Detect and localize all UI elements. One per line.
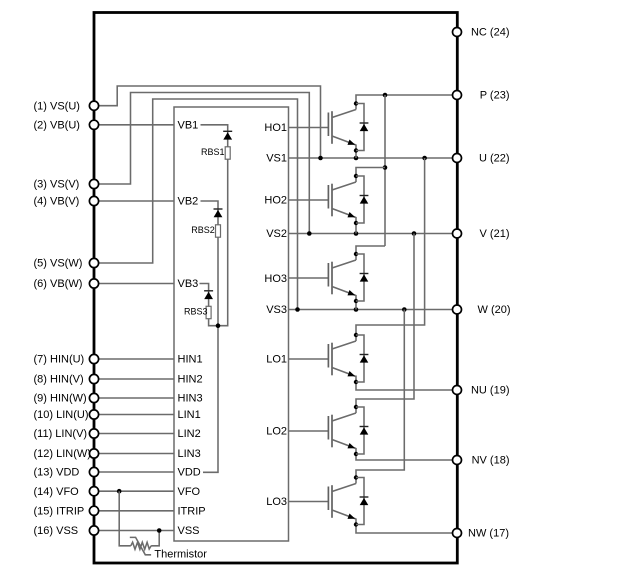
wire VB1 to bootstrap diode DBS1 [201, 125, 228, 147]
wire NV line [356, 448, 457, 460]
wire pin6 VB(W) to IC VB3 [94, 283, 174, 285]
wire pin11 LIN(V) to IC LIN2 [94, 433, 174, 435]
svg-text:VB2: VB2 [178, 196, 199, 208]
wire thermistor to VSS tap [151, 531, 159, 546]
wire Q2 collector stub [356, 168, 385, 183]
pin 12 terminal [89, 449, 98, 458]
wire P rail [356, 95, 457, 110]
wire pin9 HIN(W) to IC HIN3 [94, 397, 174, 399]
wire pin8 HIN(V) to IC HIN2 [94, 378, 174, 380]
junction low-side W feed on VS3 [402, 307, 407, 312]
wire pin14 VFO to IC VFO [94, 490, 174, 492]
IGBT Q2 (V-phase high side) [289, 174, 359, 225]
svg-text:LIN1: LIN1 [178, 409, 201, 421]
wire pin7 HIN(U) to IC HIN1 [94, 358, 174, 360]
pin 1 terminal [89, 101, 98, 110]
svg-text:VDD: VDD [178, 467, 201, 479]
wire VB3 to bootstrap diode DBS3 [200, 284, 209, 307]
pin 10 terminal [89, 410, 98, 419]
svg-text:(5) VS(W): (5) VS(W) [34, 258, 83, 270]
svg-text:(2) VB(U): (2) VB(U) [34, 120, 80, 132]
wire Q2 emitter to VS2 [355, 217, 357, 234]
wire pin10 LIN(U) to IC LIN1 [94, 414, 174, 416]
svg-text:(14) VFO: (14) VFO [34, 486, 80, 498]
svg-text:(7) HIN(U): (7) HIN(U) [34, 354, 85, 366]
svg-text:RBS3: RBS3 [184, 307, 208, 317]
wire pin1 VS(U) to VS1 node [94, 86, 321, 158]
IGBT Q1 (U-phase high side) [289, 101, 359, 152]
wire pin16 VSS to IC VSS [94, 530, 174, 532]
wire pin5 VS(W) to VS3 node [94, 99, 298, 310]
svg-text:LO1: LO1 [266, 354, 287, 366]
pin 17 terminal NW [453, 529, 462, 538]
package outline (module boundary) [94, 13, 457, 564]
wire pin15 ITRIP to IC ITRIP [94, 510, 174, 512]
svg-text:(12) LIN(W): (12) LIN(W) [34, 448, 91, 460]
svg-text:HIN3: HIN3 [178, 393, 203, 405]
wire pin2 VB(U) to IC VB1 [94, 124, 174, 126]
svg-text:HO3: HO3 [264, 273, 287, 285]
svg-text:VSS: VSS [178, 525, 200, 537]
svg-text:NC (24): NC (24) [471, 27, 510, 39]
junction Q2 emitter on VS2 [354, 231, 359, 236]
wire Q1 emitter to VS1 [355, 145, 357, 159]
wire Q5 collector stub up to VS2 [356, 234, 414, 414]
svg-text:(9) HIN(W): (9) HIN(W) [34, 393, 87, 405]
wire VS2 line [289, 233, 458, 235]
svg-text:W (20): W (20) [478, 304, 511, 316]
svg-text:LO3: LO3 [266, 496, 287, 508]
IGBT Q3 (W-phase high side) [289, 252, 359, 303]
junction VSS tap [157, 528, 162, 533]
svg-text:(16) VSS: (16) VSS [34, 525, 79, 537]
freewheel diode D2 [356, 176, 368, 223]
junction VS(W) on VS3 [295, 307, 300, 312]
pin 7 terminal [89, 354, 98, 363]
junction low-side V feed on VS2 [412, 231, 417, 236]
junction Q3 emitter on VS3 [354, 307, 359, 312]
wire pin3 VS(V) to VS2 node [94, 93, 309, 234]
wire RBS3 down to bootstrap junction [209, 319, 218, 326]
svg-text:Thermistor: Thermistor [154, 549, 207, 561]
pin 9 terminal [89, 393, 98, 402]
pin 13 terminal [89, 467, 98, 476]
svg-text:U (22): U (22) [479, 153, 510, 165]
svg-text:NV (18): NV (18) [472, 455, 510, 467]
thermistor RT1 zigzag [131, 542, 151, 549]
wire pin4 VB(V) to IC VB2 [94, 200, 174, 202]
svg-text:HO1: HO1 [264, 122, 287, 134]
resistor RBS2 [216, 225, 221, 237]
svg-text:VB1: VB1 [178, 120, 199, 132]
svg-text:(3) VS(V): (3) VS(V) [34, 179, 80, 191]
resistor RBS1 [225, 147, 230, 159]
svg-text:VB3: VB3 [178, 278, 199, 290]
bootstrap diode DBS2 [214, 209, 223, 217]
svg-text:(1) VS(U): (1) VS(U) [34, 100, 80, 112]
pin 4 terminal [89, 196, 98, 205]
wire Q6 collector stub up to VS3 [356, 310, 404, 484]
svg-text:HO2: HO2 [264, 195, 287, 207]
pin 21 terminal V [453, 229, 462, 238]
pin 19 terminal NU [453, 386, 462, 395]
wire P feed down to Q2 and Q3 collectors [384, 95, 386, 246]
junction low-side U feed on VS1 [422, 156, 427, 161]
IGBT Q6 (W-phase low side) [289, 475, 359, 526]
junction P rail feed [383, 93, 388, 98]
pin 22 terminal U [453, 154, 462, 163]
svg-text:(8) HIN(V): (8) HIN(V) [34, 374, 84, 386]
wire Q3 collector stub [356, 246, 385, 260]
wire VS3 line [289, 309, 458, 311]
bootstrap diode DBS3 [204, 291, 213, 299]
bootstrap diode DBS1 [223, 131, 232, 139]
svg-text:LIN3: LIN3 [178, 448, 201, 460]
freewheel diode D3 [356, 254, 368, 301]
pin 5 terminal [89, 258, 98, 267]
wire VS1 line [289, 157, 458, 159]
wire Q4 collector stub up to VS1 [356, 158, 425, 341]
svg-text:(6) VB(W): (6) VB(W) [34, 278, 83, 290]
svg-text:V (21): V (21) [480, 228, 510, 240]
svg-text:NW (17): NW (17) [468, 528, 509, 540]
pin 20 terminal W [453, 305, 462, 314]
junction VS(U) on VS1 [318, 156, 323, 161]
pin 23 terminal P [453, 91, 462, 100]
pin 18 terminal NV [453, 456, 462, 465]
pin 15 terminal [89, 506, 98, 515]
freewheel diode D6 [356, 478, 368, 525]
thermistor RT1 strike line [130, 537, 151, 554]
svg-text:HIN2: HIN2 [178, 374, 203, 386]
svg-text:VS2: VS2 [266, 228, 287, 240]
pin 3 terminal [89, 179, 98, 188]
wire NU line [356, 376, 457, 391]
IGBT Q4 (U-phase low side) [289, 333, 359, 384]
junction bootstrap VDD node [216, 323, 221, 328]
svg-text:(10) LIN(U): (10) LIN(U) [34, 409, 89, 421]
wire pin12 LIN(W) to IC LIN3 [94, 453, 174, 455]
pin 16 terminal [89, 526, 98, 535]
wire Q3 emitter to VS3 [355, 295, 357, 310]
svg-text:LIN2: LIN2 [178, 428, 201, 440]
junction P feed at Q2 collector stub [383, 165, 388, 170]
svg-text:VS3: VS3 [266, 304, 287, 316]
pin 11 terminal [89, 429, 98, 438]
pin 24 terminal NC [453, 28, 462, 37]
pin 6 terminal [89, 279, 98, 288]
freewheel diode D4 [356, 335, 368, 382]
pin 2 terminal [89, 120, 98, 129]
wire VFO tap down to thermistor [119, 491, 131, 546]
pin 8 terminal [89, 374, 98, 383]
IGBT Q5 (V-phase low side) [289, 405, 359, 456]
wire RBS1 down to bootstrap junction [218, 159, 228, 326]
freewheel diode D1 [356, 104, 368, 151]
wire VB2 to bootstrap diode DBS2 [201, 201, 219, 225]
wire pin13 VDD to IC VDD [94, 471, 174, 473]
svg-text:ITRIP: ITRIP [178, 505, 206, 517]
svg-text:(11) LIN(V): (11) LIN(V) [34, 428, 88, 440]
svg-text:(15) ITRIP: (15) ITRIP [34, 505, 85, 517]
wire NW line [356, 519, 457, 534]
svg-text:P (23): P (23) [480, 90, 510, 102]
svg-text:NU (19): NU (19) [471, 385, 510, 397]
freewheel diode D5 [356, 407, 368, 454]
svg-text:(4) VB(V): (4) VB(V) [34, 196, 80, 208]
pin 14 terminal [89, 487, 98, 496]
svg-text:(13) VDD: (13) VDD [34, 467, 80, 479]
junction VS(V) on VS2 [307, 231, 312, 236]
gate driver IC U1 box [174, 107, 289, 541]
junction VFO tap [117, 489, 122, 494]
svg-text:LO2: LO2 [266, 426, 287, 438]
svg-text:VS1: VS1 [266, 153, 287, 165]
junction Q1 emitter on VS1 [354, 156, 359, 161]
wire RBS2 down through junction to IC VDD [203, 237, 218, 472]
svg-text:RBS1: RBS1 [201, 147, 225, 157]
resistor RBS3 [206, 306, 211, 318]
svg-text:RBS2: RBS2 [191, 225, 215, 235]
svg-text:HIN1: HIN1 [178, 354, 203, 366]
svg-text:VFO: VFO [178, 486, 201, 498]
